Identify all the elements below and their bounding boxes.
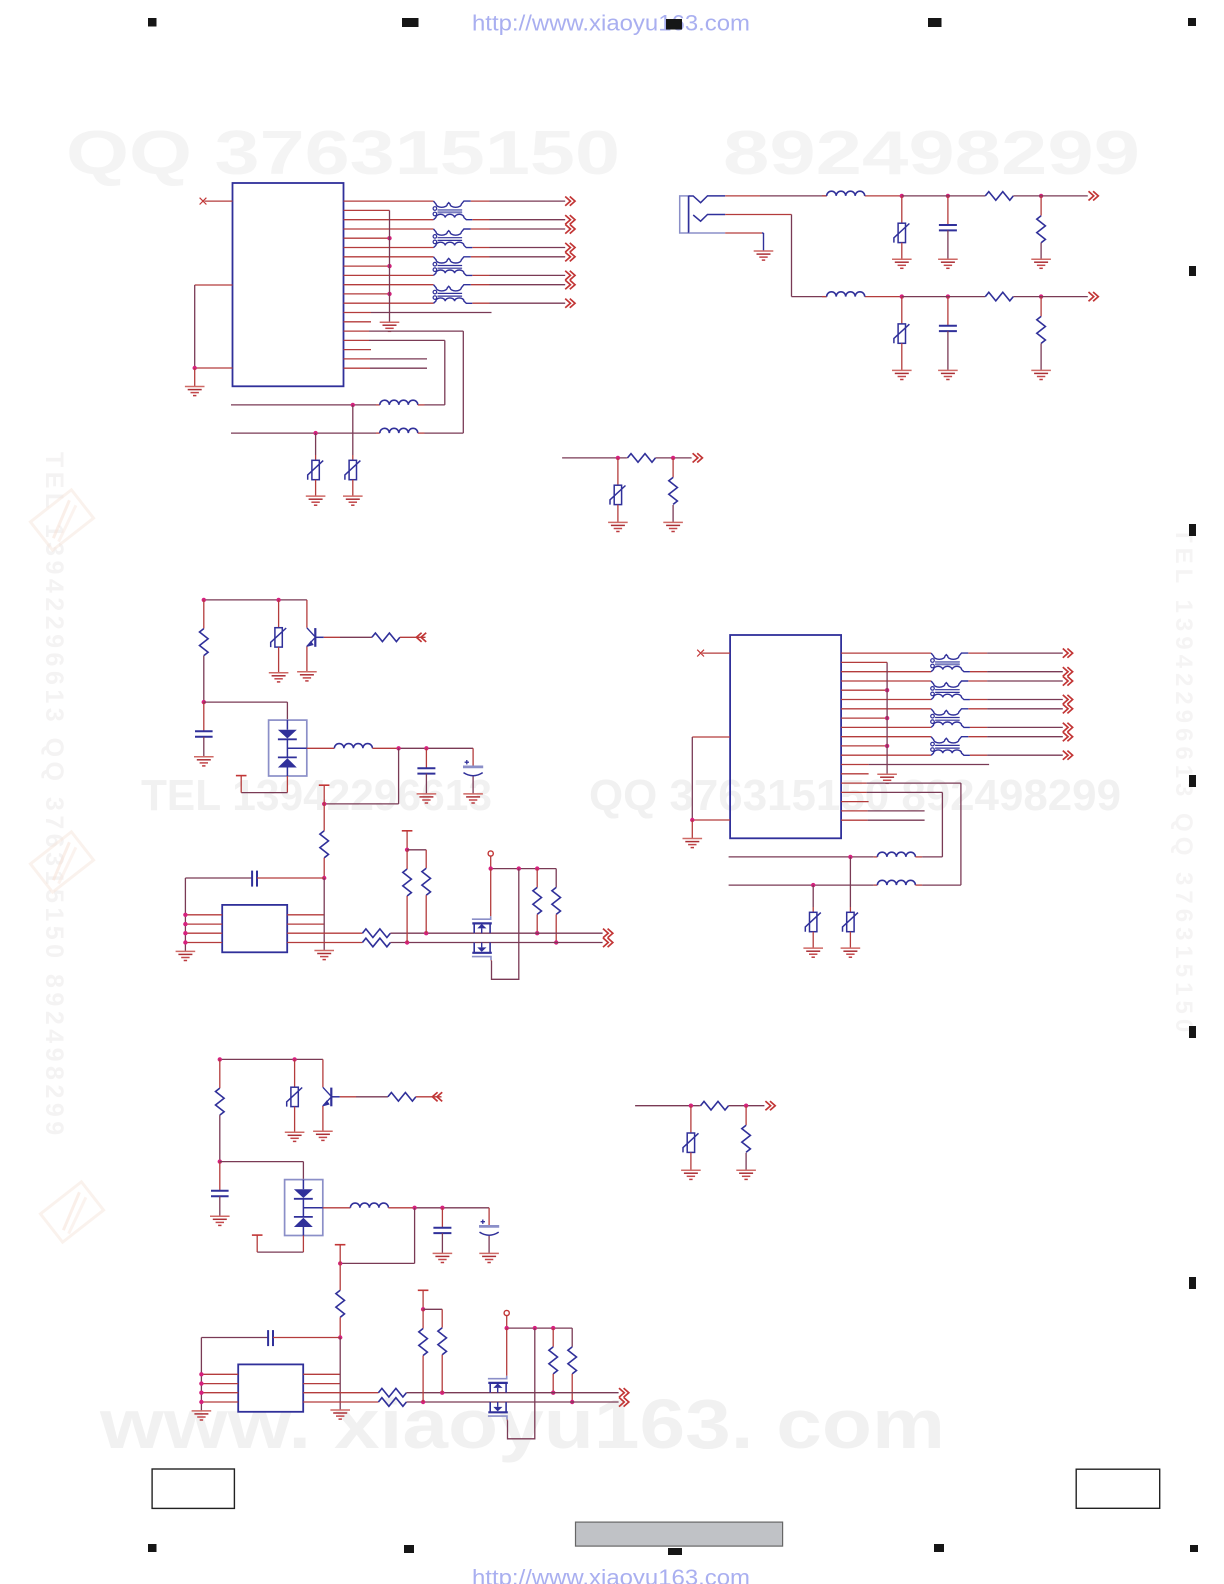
svg-text:TEL 13942296613: TEL 13942296613 xyxy=(141,771,492,820)
svg-text:892498299: 892498299 xyxy=(723,119,1140,188)
svg-text:QQ 376315150: QQ 376315150 xyxy=(66,119,620,188)
svg-text:QQ 376315150 892498299: QQ 376315150 892498299 xyxy=(589,771,1121,820)
svg-text:http://www.xiaoyu163.com: http://www.xiaoyu163.com xyxy=(472,1565,750,1584)
svg-text:www. xiaoyu163. com: www. xiaoyu163. com xyxy=(99,1385,945,1463)
svg-text:TEL 13942296613 QQ 37631515: TEL 13942296613 QQ 376315150 892498299 xyxy=(40,452,68,1140)
svg-text:http://www.xiaoyu163.com: http://www.xiaoyu163.com xyxy=(472,11,750,36)
